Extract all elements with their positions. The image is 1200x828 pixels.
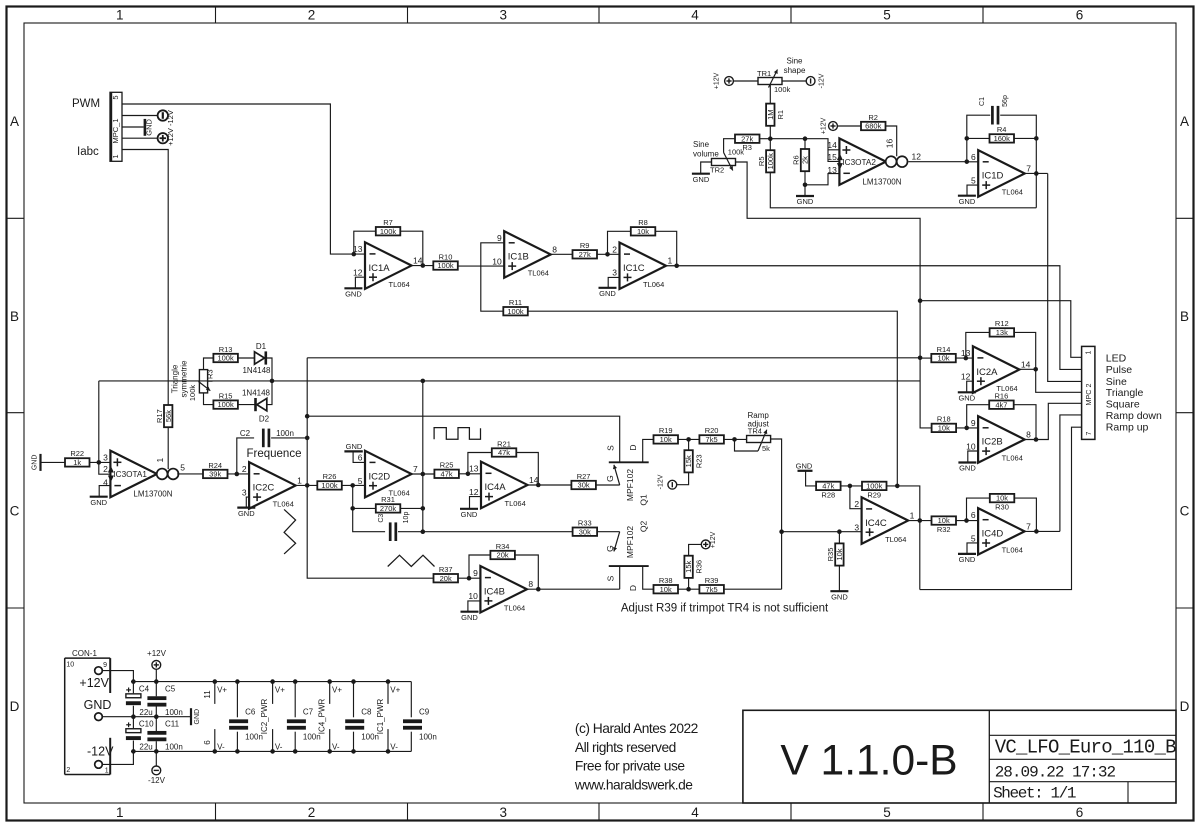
svg-text:MPC_1: MPC_1 <box>111 118 120 143</box>
svg-text:V+: V+ <box>332 685 342 694</box>
svg-text:14: 14 <box>827 140 837 150</box>
svg-text:13: 13 <box>827 165 837 175</box>
svg-text:10: 10 <box>66 662 74 669</box>
svg-text:15k: 15k <box>684 561 693 573</box>
svg-text:Sine: Sine <box>1106 376 1127 388</box>
svg-text:R13: R13 <box>219 345 233 354</box>
svg-text:TL064: TL064 <box>643 280 664 289</box>
svg-text:100k: 100k <box>866 482 883 491</box>
svg-text:V+: V+ <box>275 685 285 694</box>
svg-text:TL064: TL064 <box>1002 546 1023 555</box>
svg-text:1N4148: 1N4148 <box>242 366 271 375</box>
svg-text:-12V: -12V <box>658 474 665 489</box>
svg-text:100k: 100k <box>507 307 524 316</box>
svg-text:www.haraldswerk.de: www.haraldswerk.de <box>574 777 693 792</box>
svg-text:1: 1 <box>297 475 302 485</box>
svg-text:C7: C7 <box>303 708 314 717</box>
svg-text:680k: 680k <box>865 122 882 131</box>
svg-text:B: B <box>10 309 19 324</box>
svg-text:R30: R30 <box>995 503 1009 512</box>
svg-text:TR1: TR1 <box>757 69 771 78</box>
svg-text:GND: GND <box>959 555 976 564</box>
svg-text:C3: C3 <box>378 514 385 523</box>
svg-text:A: A <box>10 114 19 129</box>
svg-text:V+: V+ <box>217 685 227 694</box>
svg-text:15: 15 <box>827 152 837 162</box>
svg-text:C10: C10 <box>139 719 154 728</box>
svg-text:100k: 100k <box>728 148 745 157</box>
svg-text:C: C <box>1180 504 1190 519</box>
svg-text:R18: R18 <box>937 415 951 424</box>
svg-text:1: 1 <box>668 256 673 266</box>
svg-text:7: 7 <box>1026 163 1031 173</box>
svg-text:100n: 100n <box>419 733 437 742</box>
svg-text:2: 2 <box>612 244 617 254</box>
svg-text:39k: 39k <box>209 470 221 479</box>
svg-text:12: 12 <box>353 268 363 278</box>
svg-text:GND: GND <box>461 510 478 519</box>
svg-text:IC1_PWR: IC1_PWR <box>376 698 385 734</box>
svg-text:IC4A: IC4A <box>485 482 507 493</box>
svg-text:R6: R6 <box>792 155 801 165</box>
svg-text:R25: R25 <box>440 461 454 470</box>
svg-text:270k: 270k <box>380 504 397 513</box>
svg-text:TL064: TL064 <box>505 499 526 508</box>
svg-text:2: 2 <box>308 805 316 820</box>
svg-text:1k: 1k <box>73 458 81 467</box>
svg-text:S: S <box>606 575 616 581</box>
svg-text:+12V: +12V <box>79 676 109 690</box>
svg-text:C5: C5 <box>165 685 176 694</box>
svg-text:5: 5 <box>971 175 976 185</box>
svg-text:16: 16 <box>884 139 894 149</box>
svg-text:10k: 10k <box>660 435 672 444</box>
svg-text:4: 4 <box>691 8 699 23</box>
svg-text:IC2_PWR: IC2_PWR <box>260 698 269 734</box>
svg-text:9: 9 <box>497 233 502 243</box>
svg-text:5: 5 <box>971 533 976 543</box>
svg-text:IC1C: IC1C <box>623 263 645 274</box>
svg-text:R8: R8 <box>638 218 648 227</box>
svg-text:IC3OTA2: IC3OTA2 <box>842 158 876 167</box>
svg-text:10p: 10p <box>403 512 410 524</box>
svg-text:5: 5 <box>180 462 185 472</box>
svg-text:R4: R4 <box>997 125 1007 134</box>
svg-text:TR2: TR2 <box>710 166 724 175</box>
svg-text:2k: 2k <box>801 156 810 164</box>
svg-text:-12V: -12V <box>148 776 166 785</box>
svg-text:100n: 100n <box>276 429 294 438</box>
svg-text:6: 6 <box>358 453 363 463</box>
svg-text:R27: R27 <box>577 472 591 481</box>
svg-text:C6: C6 <box>245 708 256 717</box>
svg-text:IC2A: IC2A <box>976 367 998 378</box>
svg-text:D: D <box>10 699 20 714</box>
svg-text:9: 9 <box>971 418 976 428</box>
svg-text:+12V: +12V <box>821 117 828 134</box>
svg-text:GND: GND <box>194 709 201 725</box>
svg-text:12: 12 <box>912 152 922 162</box>
svg-text:V-: V- <box>275 743 283 752</box>
svg-text:R19: R19 <box>659 426 673 435</box>
svg-text:C1: C1 <box>979 97 986 106</box>
svg-text:6: 6 <box>1076 8 1084 23</box>
svg-text:R34: R34 <box>496 542 510 551</box>
svg-text:Adjust R39 if trimpot TR4 is n: Adjust R39 if trimpot TR4 is not suffici… <box>621 603 829 615</box>
svg-text:100k: 100k <box>321 481 338 490</box>
svg-text:4k7: 4k7 <box>995 400 1007 409</box>
svg-text:Pulse: Pulse <box>1106 364 1132 376</box>
svg-text:+12V: +12V <box>710 531 717 548</box>
svg-text:47k: 47k <box>822 482 834 491</box>
svg-text:G: G <box>605 475 615 482</box>
svg-text:2: 2 <box>242 464 247 474</box>
svg-text:100k: 100k <box>437 261 454 270</box>
svg-text:22u: 22u <box>139 743 152 752</box>
svg-text:D: D <box>628 585 638 591</box>
svg-text:1N4148: 1N4148 <box>242 388 271 397</box>
svg-text:(c) Harald Antes 2022: (c) Harald Antes 2022 <box>575 721 698 736</box>
svg-text:GND: GND <box>831 592 848 601</box>
svg-text:56k: 56k <box>164 410 173 422</box>
svg-text:+12V: +12V <box>147 649 167 658</box>
svg-text:MPC 2: MPC 2 <box>1084 384 1093 406</box>
svg-text:10: 10 <box>966 441 976 451</box>
svg-text:TR4: TR4 <box>748 427 762 436</box>
svg-text:R36: R36 <box>694 560 703 574</box>
svg-text:V-: V- <box>332 743 340 752</box>
svg-text:MPF102: MPF102 <box>625 469 635 501</box>
svg-text:R35: R35 <box>826 548 835 562</box>
svg-text:IC1B: IC1B <box>508 252 529 263</box>
svg-text:8: 8 <box>1026 429 1031 439</box>
svg-text:GND: GND <box>959 197 976 206</box>
svg-text:R9: R9 <box>580 241 590 250</box>
svg-text:R31: R31 <box>381 495 395 504</box>
svg-text:3: 3 <box>499 805 507 820</box>
svg-text:6: 6 <box>203 740 212 745</box>
svg-text:GND: GND <box>345 290 362 299</box>
svg-text:9: 9 <box>103 662 107 669</box>
svg-text:IC2B: IC2B <box>982 437 1003 448</box>
svg-text:R29: R29 <box>867 490 881 499</box>
svg-text:12: 12 <box>469 487 479 497</box>
svg-text:TL064: TL064 <box>273 500 294 509</box>
svg-text:R23: R23 <box>694 454 703 468</box>
svg-text:All rights reserved: All rights reserved <box>575 740 676 755</box>
svg-text:2: 2 <box>308 8 316 23</box>
svg-text:S: S <box>606 445 616 451</box>
svg-text:D1: D1 <box>256 342 267 351</box>
svg-text:20k: 20k <box>497 551 509 560</box>
svg-text:Q1: Q1 <box>639 494 649 506</box>
svg-text:R7: R7 <box>383 218 393 227</box>
svg-text:IC4_PWR: IC4_PWR <box>318 698 327 734</box>
svg-text:7: 7 <box>1086 431 1093 435</box>
svg-text:100k: 100k <box>766 153 775 170</box>
svg-text:3: 3 <box>242 487 247 497</box>
svg-text:10: 10 <box>468 591 478 601</box>
svg-text:22u: 22u <box>139 708 152 717</box>
svg-text:9: 9 <box>473 568 478 578</box>
svg-text:160k: 160k <box>994 134 1011 143</box>
svg-text:Triangle: Triangle <box>171 364 180 393</box>
svg-text:TL064: TL064 <box>528 269 549 278</box>
svg-text:20k: 20k <box>440 574 452 583</box>
svg-text:1: 1 <box>910 511 915 521</box>
svg-text:TL064: TL064 <box>389 280 410 289</box>
svg-text:TL064: TL064 <box>885 535 906 544</box>
svg-text:Sine: Sine <box>786 57 803 66</box>
svg-text:1: 1 <box>111 154 120 158</box>
svg-text:5: 5 <box>883 8 891 23</box>
svg-text:CON-1: CON-1 <box>72 649 97 658</box>
svg-text:shape: shape <box>784 66 806 75</box>
svg-text:1M: 1M <box>766 109 775 119</box>
svg-text:+12V -12V: +12V -12V <box>166 110 175 146</box>
svg-text:Sine: Sine <box>693 140 710 149</box>
svg-text:R11: R11 <box>509 298 522 307</box>
svg-text:GND: GND <box>599 289 616 298</box>
svg-text:11: 11 <box>203 690 212 699</box>
svg-text:GND: GND <box>461 613 478 622</box>
svg-text:8: 8 <box>528 579 533 589</box>
svg-text:GND: GND <box>346 442 363 451</box>
svg-text:TL064: TL064 <box>504 604 525 613</box>
svg-text:R20: R20 <box>705 426 719 435</box>
svg-text:V-: V- <box>217 743 225 752</box>
svg-text:PWM: PWM <box>72 98 100 110</box>
svg-text:C2: C2 <box>240 429 251 438</box>
svg-text:IC1A: IC1A <box>369 263 391 274</box>
svg-text:2: 2 <box>66 767 70 774</box>
svg-text:R5: R5 <box>757 157 766 167</box>
svg-text:7: 7 <box>413 464 418 474</box>
svg-text:GND: GND <box>959 464 976 473</box>
svg-text:4: 4 <box>691 805 699 820</box>
svg-text:30k: 30k <box>578 481 590 490</box>
svg-text:R22: R22 <box>70 449 84 458</box>
svg-text:13: 13 <box>469 464 479 474</box>
svg-text:Free for private use: Free for private use <box>575 759 685 774</box>
svg-text:47k: 47k <box>498 448 510 457</box>
svg-text:VC_LFO_Euro_110_B: VC_LFO_Euro_110_B <box>995 737 1176 759</box>
svg-text:IC2D: IC2D <box>369 471 391 482</box>
svg-text:Iabc: Iabc <box>77 146 99 158</box>
svg-text:R38: R38 <box>659 576 673 585</box>
svg-text:R14: R14 <box>937 345 951 354</box>
svg-text:5: 5 <box>111 95 120 99</box>
svg-text:GND: GND <box>84 698 112 712</box>
svg-text:C4: C4 <box>139 685 150 694</box>
svg-text:IC4D: IC4D <box>982 529 1004 540</box>
svg-text:C: C <box>10 504 20 519</box>
svg-text:10k: 10k <box>996 494 1008 503</box>
svg-text:C11: C11 <box>165 719 180 728</box>
svg-text:R2: R2 <box>868 113 878 122</box>
svg-text:3: 3 <box>499 8 507 23</box>
svg-text:10k: 10k <box>835 548 844 560</box>
svg-text:30k: 30k <box>579 527 591 536</box>
svg-text:GND: GND <box>796 461 813 470</box>
svg-text:D2: D2 <box>259 414 270 423</box>
svg-text:-12V: -12V <box>819 73 826 88</box>
svg-text:GND: GND <box>958 394 975 403</box>
svg-text:V+: V+ <box>390 685 400 694</box>
svg-text:LM13700N: LM13700N <box>862 177 901 186</box>
svg-text:28.09.22 17:32: 28.09.22 17:32 <box>995 764 1116 782</box>
svg-text:D: D <box>628 444 638 450</box>
svg-text:R1: R1 <box>776 110 785 120</box>
svg-text:R10: R10 <box>439 252 453 261</box>
svg-text:10k: 10k <box>660 585 672 594</box>
svg-text:V 1.1.0-B: V 1.1.0-B <box>780 738 957 785</box>
svg-text:R33: R33 <box>578 519 592 528</box>
svg-text:3: 3 <box>103 453 108 463</box>
svg-text:IC4C: IC4C <box>865 518 887 529</box>
svg-text:R39: R39 <box>705 576 719 585</box>
svg-text:47k: 47k <box>441 469 453 478</box>
svg-text:R28: R28 <box>821 490 835 499</box>
svg-text:13k: 13k <box>996 328 1008 337</box>
svg-text:R17: R17 <box>155 409 164 423</box>
svg-text:Frequence: Frequence <box>247 448 302 460</box>
svg-text:GND: GND <box>797 197 814 206</box>
svg-text:10k: 10k <box>938 516 950 525</box>
svg-text:3: 3 <box>612 268 617 278</box>
svg-text:GND: GND <box>693 175 710 184</box>
svg-text:10k: 10k <box>938 424 950 433</box>
svg-text:100k: 100k <box>217 400 234 409</box>
svg-text:100k: 100k <box>188 385 197 402</box>
svg-text:+12V: +12V <box>714 72 721 89</box>
svg-text:100n: 100n <box>165 743 183 752</box>
svg-text:Sheet: 1/1: Sheet: 1/1 <box>993 785 1076 803</box>
svg-text:GND: GND <box>90 498 107 507</box>
svg-text:volume: volume <box>693 150 719 159</box>
svg-text:R21: R21 <box>497 439 511 448</box>
svg-text:5: 5 <box>358 476 363 486</box>
svg-text:27k: 27k <box>741 134 753 143</box>
svg-text:14: 14 <box>1021 360 1031 370</box>
svg-text:2: 2 <box>103 464 108 474</box>
svg-text:2: 2 <box>854 499 859 509</box>
svg-text:R12: R12 <box>995 319 1009 328</box>
svg-text:GND: GND <box>32 455 39 471</box>
svg-text:R16: R16 <box>995 392 1009 401</box>
svg-text:IC3OTA1: IC3OTA1 <box>113 470 147 479</box>
svg-text:6: 6 <box>1076 805 1084 820</box>
svg-text:IC1D: IC1D <box>982 171 1004 182</box>
svg-text:1: 1 <box>155 458 165 463</box>
svg-text:IC4B: IC4B <box>484 587 505 598</box>
svg-text:LM13700N: LM13700N <box>133 490 172 499</box>
svg-text:C9: C9 <box>419 708 430 717</box>
svg-text:R32: R32 <box>937 525 951 534</box>
svg-text:1: 1 <box>116 8 124 23</box>
svg-text:15k: 15k <box>684 455 693 467</box>
svg-text:100k: 100k <box>380 227 397 236</box>
svg-text:A: A <box>1180 114 1189 129</box>
svg-text:IC2C: IC2C <box>253 483 275 494</box>
svg-text:MPF102: MPF102 <box>625 526 635 558</box>
svg-text:R26: R26 <box>323 472 337 481</box>
svg-text:10: 10 <box>492 256 502 266</box>
svg-text:56p: 56p <box>1002 95 1009 107</box>
svg-text:10k: 10k <box>937 354 949 363</box>
svg-text:R15: R15 <box>219 391 233 400</box>
svg-text:TL064: TL064 <box>1002 454 1023 463</box>
svg-text:-12V: -12V <box>87 745 114 759</box>
svg-text:G: G <box>605 545 615 552</box>
svg-text:100n: 100n <box>165 708 183 717</box>
svg-text:Ramp down: Ramp down <box>1106 410 1162 422</box>
svg-text:V-: V- <box>390 743 398 752</box>
svg-text:1: 1 <box>105 768 109 775</box>
svg-text:10k: 10k <box>637 227 649 236</box>
svg-text:5k: 5k <box>762 444 770 453</box>
svg-text:LED: LED <box>1106 352 1127 364</box>
svg-text:R24: R24 <box>208 461 222 470</box>
svg-text:Q2: Q2 <box>639 521 649 533</box>
svg-text:7k5: 7k5 <box>706 585 718 594</box>
svg-text:3: 3 <box>854 523 859 533</box>
svg-text:6: 6 <box>971 510 976 520</box>
svg-text:6: 6 <box>971 152 976 162</box>
svg-text:GND: GND <box>238 509 255 518</box>
svg-text:100k: 100k <box>217 354 234 363</box>
svg-text:12: 12 <box>961 372 971 382</box>
svg-text:C8: C8 <box>361 708 372 717</box>
svg-text:5: 5 <box>883 805 891 820</box>
svg-text:8: 8 <box>552 244 557 254</box>
svg-text:B: B <box>1180 309 1189 324</box>
svg-text:7: 7 <box>1026 521 1031 531</box>
svg-text:1: 1 <box>116 805 124 820</box>
svg-text:GND: GND <box>145 118 154 135</box>
svg-text:Ramp up: Ramp up <box>1106 421 1149 433</box>
svg-text:D: D <box>1180 699 1190 714</box>
svg-text:TL064: TL064 <box>1002 188 1023 197</box>
svg-text:7k5: 7k5 <box>706 435 718 444</box>
svg-text:R37: R37 <box>439 565 453 574</box>
svg-text:100k: 100k <box>774 85 791 94</box>
svg-text:27k: 27k <box>579 250 591 259</box>
svg-text:Square: Square <box>1106 398 1140 410</box>
svg-text:1: 1 <box>1086 350 1093 354</box>
